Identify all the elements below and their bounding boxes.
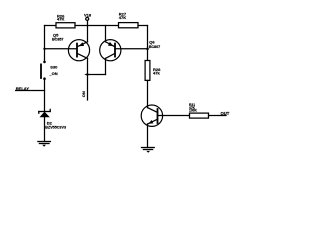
resistor R27 [119, 12, 139, 28]
svg-text:47k: 47k [153, 70, 160, 75]
wire Q7 base lead [158, 115, 190, 117]
wire R28 to Q7 collector [147, 80, 149, 107]
wire to OUT [209, 115, 227, 117]
svg-text:BC807: BC807 [149, 45, 160, 49]
wire left vertical upper [44, 26, 46, 62]
svg-text:Q6: Q6 [149, 40, 155, 45]
power V18 [84, 12, 92, 25]
wire collector tie horizontal [88, 74, 106, 76]
node R27/Q6/R28 junction [146, 48, 149, 51]
resistor R28 [145, 61, 161, 81]
wire right vertical upper [147, 26, 149, 61]
svg-text:BZV55C3V3: BZV55C3V3 [45, 126, 66, 130]
wire RELAY stub [16, 90, 45, 92]
wire top rail right segment [138, 25, 148, 27]
svg-text:D2: D2 [47, 120, 53, 125]
svg-text:OUT: OUT [221, 111, 230, 116]
wire left vertical middle [44, 80, 46, 112]
resistor R26 [56, 13, 75, 28]
node collector tie arrow [84, 73, 88, 76]
svg-text:S30: S30 [50, 65, 58, 70]
wire Q5 base lead [45, 48, 77, 50]
ground left [38, 142, 51, 147]
svg-text:ON: ON [81, 91, 86, 97]
transistor Q7 [141, 105, 162, 126]
wire Q6 collector down [105, 58, 107, 74]
transistor Q6 [100, 40, 160, 61]
wire Q7 emitter to ground [147, 124, 149, 147]
wire Q6 base lead [115, 48, 148, 50]
svg-text:47K: 47K [119, 15, 126, 20]
wire diode to ground [44, 117, 46, 141]
resistor R31 [189, 103, 209, 118]
transistor Q5 [52, 32, 90, 61]
switch S30 [41, 61, 58, 80]
wire top rail middle segment [75, 25, 119, 27]
diode D2 zener [39, 109, 66, 129]
svg-text:BC857: BC857 [52, 37, 63, 41]
svg-text:100K: 100K [189, 109, 198, 113]
wire top rail left segment [45, 25, 57, 27]
svg-text:_ON: _ON [48, 71, 57, 76]
svg-text:V18: V18 [84, 12, 92, 17]
node Q5 base junction [43, 48, 45, 50]
svg-text:47K: 47K [57, 17, 64, 22]
wire Q6 emitter to rail [105, 26, 107, 42]
ground right [142, 148, 155, 153]
wire Q5 collector down [87, 58, 89, 100]
wire Q5 emitter to rail [87, 26, 89, 42]
